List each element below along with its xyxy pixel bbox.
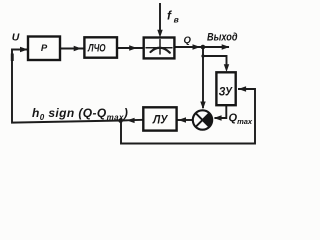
svg-text:ЛЧО: ЛЧО xyxy=(87,42,106,54)
svg-text:Выход: Выход xyxy=(207,32,238,44)
svg-text:U: U xyxy=(12,32,20,44)
svg-text:Р: Р xyxy=(41,43,48,54)
svg-text:ЛУ: ЛУ xyxy=(152,114,168,126)
svg-text:ЗУ: ЗУ xyxy=(219,86,233,98)
svg-text:Q: Q xyxy=(184,35,192,46)
